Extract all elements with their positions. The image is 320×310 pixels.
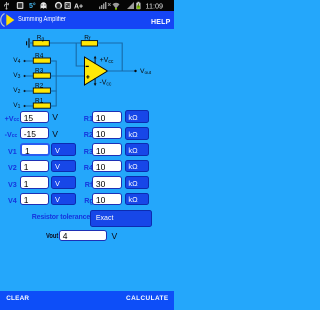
svg-text:Rf: Rf <box>84 34 91 42</box>
wire R1 to bus <box>50 105 56 107</box>
svg-text:R2: R2 <box>35 83 44 90</box>
wifi icon <box>113 3 120 9</box>
svg-text:V4: V4 <box>13 57 20 65</box>
svg-text:R3: R3 <box>35 68 44 75</box>
circuit schematic <box>0 0 174 250</box>
wire V1 to R1 <box>25 105 34 107</box>
wire Rf to output node <box>98 43 123 71</box>
bus vertical wire <box>55 61 57 106</box>
wire R2 to bus <box>50 90 56 92</box>
-Vcc pin <box>94 78 96 84</box>
resistor Rf <box>81 41 97 46</box>
resistor R1 <box>33 103 50 108</box>
svg-text:-Vcc: -Vcc <box>99 80 112 88</box>
wire ground to Rg <box>29 42 33 44</box>
round dark icon <box>55 2 62 9</box>
resistor R2 <box>33 88 50 93</box>
battery <box>138 2 140 3</box>
svg-text:V3: V3 <box>13 72 20 80</box>
bottom button bar <box>0 291 174 310</box>
small grey square icon <box>65 2 71 9</box>
wire junction down to inverting input <box>76 43 84 66</box>
ghost icon <box>41 2 47 9</box>
row 5: V3 / Rf <box>8 181 17 188</box>
output node <box>134 70 136 72</box>
row 4: V2 / R4 <box>8 164 17 171</box>
usb icon <box>5 2 9 10</box>
app icon: grey arc + yellow triangle <box>1 14 5 27</box>
svg-text:R1: R1 <box>35 98 44 105</box>
screenshot icon <box>17 2 24 9</box>
wire Rg to Rf <box>49 42 81 44</box>
row 6: V4 / Rg <box>8 197 17 204</box>
action bar <box>0 11 174 29</box>
ground <box>27 38 29 47</box>
wire R3 to non-inverting input <box>50 75 84 77</box>
resistor Rg <box>33 41 49 46</box>
output wire <box>108 70 136 72</box>
op-amp U1 <box>85 57 108 85</box>
row 3: V1 / R3 <box>8 148 17 155</box>
signal triangle <box>127 2 134 9</box>
wire V4 to R4 <box>25 60 34 62</box>
row 1: +Vcc / R1 <box>5 115 20 123</box>
svg-text:R4: R4 <box>35 53 44 60</box>
svg-text:Vout: Vout <box>140 68 152 76</box>
row 2: -Vcc / R2 <box>5 131 18 139</box>
svg-text:V1: V1 <box>13 102 20 110</box>
resistor tolerance row <box>32 214 90 221</box>
resistor R4 <box>33 58 50 63</box>
network signal bars with x <box>99 2 106 9</box>
status bar <box>0 0 174 11</box>
wire R4 to bus <box>50 60 56 62</box>
svg-text:Rg: Rg <box>37 34 45 42</box>
svg-text:V2: V2 <box>13 87 20 95</box>
+Vcc pin <box>94 58 96 65</box>
resistor R3 <box>33 73 50 78</box>
Vout row <box>46 232 58 239</box>
svg-text:+Vcc: +Vcc <box>100 57 114 65</box>
wire V3 to R3 <box>25 75 34 77</box>
wire V2 to R2 <box>25 90 34 92</box>
